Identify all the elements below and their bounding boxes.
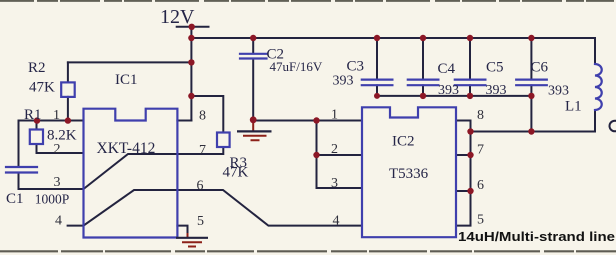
svg-text:47K: 47K xyxy=(29,80,55,96)
svg-text:6: 6 xyxy=(197,179,204,194)
svg-text:1: 1 xyxy=(331,108,338,123)
svg-text:393: 393 xyxy=(548,84,569,99)
svg-text:C1: C1 xyxy=(6,191,24,207)
svg-text:1000P: 1000P xyxy=(35,192,70,207)
svg-text:393: 393 xyxy=(438,83,459,98)
svg-text:XKT-412: XKT-412 xyxy=(97,140,156,157)
svg-text:393: 393 xyxy=(486,83,507,98)
svg-text:5: 5 xyxy=(197,214,204,229)
svg-text:C4: C4 xyxy=(438,61,456,77)
svg-text:8.2K: 8.2K xyxy=(47,128,77,144)
svg-text:393: 393 xyxy=(333,74,354,89)
svg-text:IC2: IC2 xyxy=(392,134,415,150)
svg-text:6: 6 xyxy=(477,178,484,193)
svg-text:IC1: IC1 xyxy=(115,72,138,88)
svg-text:2: 2 xyxy=(54,142,61,157)
svg-text:14uH/Multi-strand line: 14uH/Multi-strand line xyxy=(458,230,615,244)
svg-text:1: 1 xyxy=(53,108,60,123)
svg-text:12V: 12V xyxy=(160,6,195,28)
svg-text:T5336: T5336 xyxy=(389,166,429,182)
svg-text:47K: 47K xyxy=(223,165,249,181)
svg-text:C5: C5 xyxy=(486,60,504,76)
svg-text:8: 8 xyxy=(477,108,484,123)
svg-text:2: 2 xyxy=(331,142,338,157)
svg-text:R1: R1 xyxy=(24,107,42,123)
svg-text:7: 7 xyxy=(199,143,206,158)
svg-text:3: 3 xyxy=(331,176,338,191)
svg-text:4: 4 xyxy=(55,214,62,229)
svg-text:47uF/16V: 47uF/16V xyxy=(270,59,323,74)
svg-text:C3: C3 xyxy=(347,59,365,75)
svg-text:C6: C6 xyxy=(531,60,549,76)
svg-text:4: 4 xyxy=(333,214,340,229)
svg-text:3: 3 xyxy=(54,175,61,190)
svg-text:8: 8 xyxy=(199,109,206,124)
svg-text:7: 7 xyxy=(477,143,484,158)
svg-text:R2: R2 xyxy=(28,60,46,76)
svg-text:5: 5 xyxy=(477,213,484,228)
svg-text:L1: L1 xyxy=(565,99,582,115)
